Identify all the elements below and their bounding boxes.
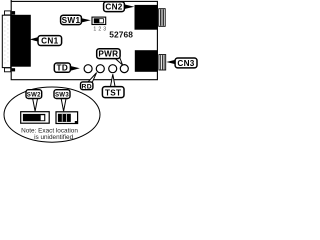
svg-text:CN3: CN3 bbox=[177, 59, 194, 68]
svg-text:TST: TST bbox=[105, 88, 121, 97]
svg-text:1 2 3: 1 2 3 bbox=[93, 27, 106, 33]
svg-text:is unidentified.: is unidentified. bbox=[34, 134, 75, 141]
svg-text:PWR: PWR bbox=[98, 50, 118, 59]
svg-text:SW2: SW2 bbox=[27, 91, 41, 98]
svg-text:CN1: CN1 bbox=[41, 37, 58, 46]
svg-text:CN2: CN2 bbox=[105, 3, 122, 12]
svg-text:TD: TD bbox=[57, 64, 69, 73]
svg-text:SW1: SW1 bbox=[62, 16, 81, 25]
svg-text:RD: RD bbox=[81, 83, 91, 90]
svg-text:SW3: SW3 bbox=[55, 91, 69, 98]
svg-text:52768: 52768 bbox=[109, 30, 133, 40]
